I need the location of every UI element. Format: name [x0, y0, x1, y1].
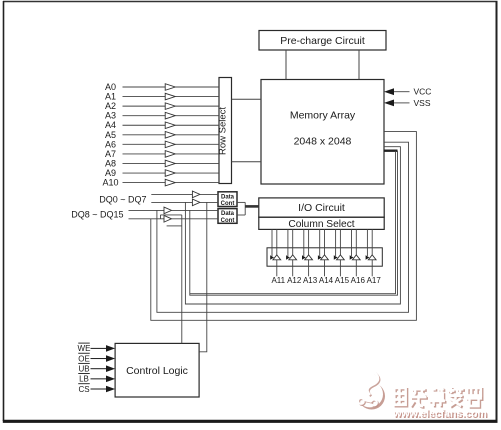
svg-text:A15: A15 [335, 276, 350, 285]
svg-text:Cont: Cont [221, 201, 235, 207]
svg-text:A10: A10 [102, 178, 118, 188]
svg-text:CS: CS [78, 385, 89, 394]
svg-text:www.elecfans.com: www.elecfans.com [392, 408, 487, 420]
svg-text:Row Select: Row Select [218, 107, 229, 155]
svg-text:A13: A13 [303, 276, 318, 285]
svg-text:I/O Circuit: I/O Circuit [298, 202, 345, 214]
svg-text:LB: LB [79, 375, 89, 384]
svg-text:A5: A5 [105, 130, 116, 140]
svg-text:A11: A11 [271, 276, 285, 285]
svg-text:WE: WE [78, 344, 91, 353]
svg-text:UB: UB [78, 365, 89, 374]
svg-text:A16: A16 [351, 276, 366, 285]
svg-text:A17: A17 [367, 276, 382, 285]
svg-text:A12: A12 [287, 276, 302, 285]
svg-text:DQ8 ~ DQ15: DQ8 ~ DQ15 [71, 210, 123, 220]
svg-text:VCC: VCC [414, 87, 432, 97]
svg-text:A4: A4 [105, 120, 116, 130]
svg-text:Control Logic: Control Logic [126, 365, 188, 377]
svg-text:A3: A3 [105, 111, 116, 121]
svg-text:Pre-charge Circuit: Pre-charge Circuit [280, 35, 365, 47]
svg-text:Data: Data [221, 211, 235, 217]
svg-text:2048 x 2048: 2048 x 2048 [294, 136, 352, 148]
svg-text:Cont: Cont [221, 218, 235, 224]
svg-text:A9: A9 [105, 168, 116, 178]
svg-text:OE: OE [78, 354, 90, 363]
svg-text:VSS: VSS [414, 98, 431, 108]
svg-text:DQ0 ~ DQ7: DQ0 ~ DQ7 [99, 194, 146, 204]
svg-text:A0: A0 [105, 82, 116, 92]
svg-text:A14: A14 [319, 276, 334, 285]
svg-text:Data: Data [221, 194, 235, 200]
svg-text:A8: A8 [105, 158, 116, 168]
svg-text:Column Select: Column Select [288, 219, 354, 230]
svg-text:A6: A6 [105, 139, 116, 149]
svg-text:A2: A2 [105, 101, 116, 111]
svg-text:Memory Array: Memory Array [290, 110, 356, 122]
svg-text:A7: A7 [105, 149, 116, 159]
svg-text:A1: A1 [105, 92, 116, 102]
